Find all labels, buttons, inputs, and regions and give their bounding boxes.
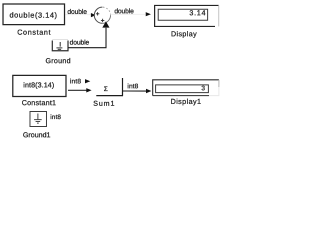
- wire arrowhead into Sum1 port 2: [86, 88, 91, 92]
- constant Constant1 (block box): [13, 75, 66, 96]
- display Display (inner value box): [158, 9, 207, 20]
- display Display1 (inner value box): [156, 85, 209, 93]
- ground Ground icon: [56, 42, 62, 49]
- wire arrowhead into Display1: [146, 89, 151, 93]
- wire Constant to Sum (washed-out) with signal type label double: [66, 14, 91, 16]
- display Display (outer box, right border washed out): [155, 5, 219, 26]
- wire arrowhead into Sum port 1: [91, 13, 96, 17]
- svg-text:Constant1: Constant1: [22, 98, 57, 107]
- svg-text:double: double: [114, 8, 134, 15]
- svg-text:double: double: [67, 9, 87, 16]
- svg-text:Display1: Display1: [171, 97, 202, 106]
- display Display1 (outer box, right/bottom-right washed out): [153, 80, 219, 96]
- svg-text:3.14: 3.14: [189, 8, 206, 17]
- ground Ground (block box, top border washed out): [52, 40, 68, 50]
- svg-text:Ground: Ground: [45, 57, 70, 65]
- sum sign + (left port): [96, 12, 99, 15]
- svg-text:int8(3.14): int8(3.14): [23, 81, 54, 89]
- op sum U1 (round Sum block): [94, 7, 110, 23]
- constant Constant (block box): [3, 4, 65, 25]
- svg-text:int8: int8: [70, 78, 82, 85]
- svg-text:3: 3: [201, 85, 205, 92]
- svg-text:int8: int8: [50, 114, 61, 121]
- sum sign + (bottom port): [101, 19, 104, 22]
- svg-text:double(3.14): double(3.14): [9, 11, 57, 20]
- svg-text:double: double: [70, 39, 90, 46]
- wire Ground to Sum bottom port, elbow, signal type label double: [68, 28, 106, 48]
- ground Ground1 icon: [34, 113, 42, 123]
- wire into Sum1 port 2: [68, 89, 87, 91]
- wire Sum1 to Display1, signal type label int8: [122, 90, 146, 92]
- svg-text:Constant: Constant: [17, 28, 51, 37]
- wire arrowhead into Sum1 port 1: [85, 79, 90, 83]
- svg-text:Sum1: Sum1: [93, 100, 115, 108]
- svg-text:Ground1: Ground1: [23, 131, 51, 139]
- wire arrowhead up into Sum port 2: [102, 21, 109, 27]
- op-amp Sum1 (rectangular sum block, top/left borders washed out): [121, 78, 123, 96]
- svg-text:int8: int8: [127, 83, 138, 90]
- ground Ground1 (block box): [30, 111, 47, 126]
- wire Sum to Display (washed-out) with signal type label double: [111, 13, 146, 15]
- wire arrowhead into Display: [146, 12, 151, 16]
- svg-text:Display: Display: [171, 30, 197, 38]
- svg-text:Σ: Σ: [104, 86, 108, 93]
